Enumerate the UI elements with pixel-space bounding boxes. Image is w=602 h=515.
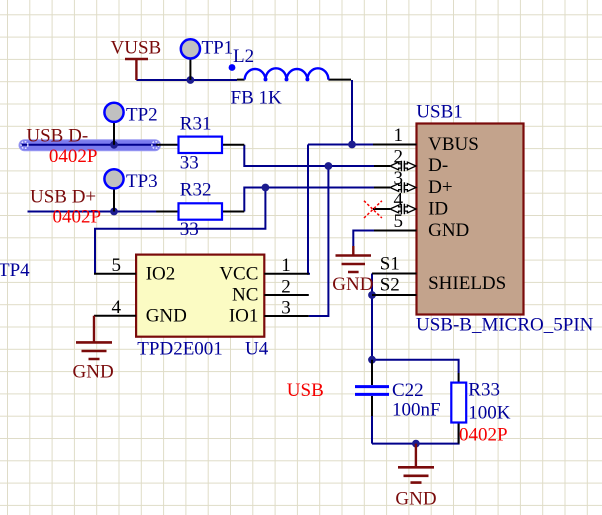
- svg-text:IO2: IO2: [146, 264, 176, 285]
- wire C22 bottom: [371, 416, 373, 444]
- svg-text:0402P: 0402P: [53, 207, 102, 228]
- svg-text:USB D+: USB D+: [30, 187, 96, 208]
- svg-text:TP2: TP2: [126, 104, 158, 125]
- svg-text:U4: U4: [245, 339, 269, 360]
- test point TP2: [104, 103, 157, 145]
- svg-text:VBUS: VBUS: [428, 134, 479, 155]
- power port VUSB: [125, 59, 148, 80]
- junction VUSB at TP1: [187, 76, 195, 84]
- svg-text:100nF: 100nF: [392, 400, 441, 421]
- svg-text:GND: GND: [395, 489, 436, 510]
- svg-text:FB 1K: FB 1K: [231, 88, 282, 109]
- svg-text:TP1: TP1: [202, 37, 234, 58]
- wire L2 out down to VBUS: [351, 80, 353, 145]
- resistor R33: [451, 373, 511, 446]
- svg-text:5: 5: [394, 211, 404, 232]
- svg-text:SHIELDS: SHIELDS: [428, 273, 506, 294]
- USB1 pin S1 SHIELDS: [372, 254, 506, 295]
- net highlight on USB D- wire: [19, 140, 161, 151]
- test point TP3: [104, 169, 157, 211]
- wire R32 to USB1 pin 3: [244, 188, 374, 212]
- svg-text:TPD2E001: TPD2E001: [137, 339, 223, 360]
- junction VBUS node: [348, 141, 356, 149]
- wire bottom loop to ground node: [372, 422, 459, 444]
- svg-text:GND: GND: [146, 306, 187, 327]
- wire VUSB rail: [136, 79, 237, 81]
- USB1 pin 5 GND: [374, 211, 469, 241]
- USB1 pin 2 D-: [374, 147, 448, 177]
- svg-text:4: 4: [394, 190, 404, 211]
- svg-text:1: 1: [394, 125, 404, 146]
- USB1 pin S2: [372, 275, 417, 296]
- wire D+ branch to U4 IO2: [95, 188, 265, 275]
- svg-text:IO1: IO1: [229, 306, 259, 327]
- U4 pin 3 IO1: [229, 297, 309, 326]
- svg-text:2: 2: [394, 147, 404, 168]
- svg-text:USB D-: USB D-: [26, 125, 88, 146]
- svg-text:R31: R31: [180, 114, 212, 135]
- svg-text:VUSB: VUSB: [111, 37, 162, 58]
- wire R31 to USB1 pin 2: [244, 145, 374, 166]
- svg-text:33: 33: [180, 153, 199, 174]
- svg-text:D-: D-: [428, 155, 448, 176]
- USB1 pin 1 VBUS: [373, 125, 479, 155]
- USB1 pin 4 ID: [373, 190, 448, 220]
- svg-text:1: 1: [281, 255, 291, 276]
- svg-text:NC: NC: [232, 285, 258, 306]
- junction D- node: [325, 162, 333, 170]
- wire VBUS row: [308, 144, 374, 146]
- wire D- branch to U4 IO1: [309, 166, 329, 316]
- wire USB D- net: [21, 144, 157, 146]
- wire shield node top loop: [372, 360, 459, 373]
- svg-text:C22: C22: [392, 380, 424, 401]
- test point TP1: [181, 37, 233, 80]
- svg-text:100K: 100K: [468, 403, 511, 424]
- connector USB1 body: [417, 124, 524, 315]
- svg-text:ID: ID: [428, 199, 448, 220]
- svg-text:0402P: 0402P: [459, 425, 508, 446]
- svg-text:2: 2: [281, 276, 291, 297]
- junction D+ at TP3: [110, 208, 118, 216]
- svg-text:GND: GND: [428, 220, 469, 241]
- wire USB D+ net: [28, 211, 158, 213]
- svg-text:USB: USB: [287, 380, 324, 401]
- svg-text:3: 3: [394, 168, 404, 189]
- ground GND at bottom: [395, 444, 436, 510]
- resistor R31: [156, 114, 244, 174]
- wire USB1 GND pin to ground: [353, 231, 374, 247]
- ground GND at USB1 pin 5: [332, 246, 373, 295]
- svg-text:33: 33: [180, 219, 199, 240]
- ground GND at U4: [73, 316, 114, 383]
- wire S1 S2 tie down to shield net: [371, 274, 373, 360]
- svg-text:L2: L2: [233, 46, 254, 67]
- svg-text:USB1: USB1: [416, 102, 462, 123]
- svg-text:TP4: TP4: [0, 260, 30, 281]
- wire VBUS down to U4 VCC: [308, 145, 310, 274]
- svg-text:D+: D+: [428, 177, 452, 198]
- svg-text:GND: GND: [332, 274, 373, 295]
- highlight selection handles: [21, 142, 159, 149]
- svg-text:GND: GND: [73, 362, 114, 383]
- junction D+ node: [262, 184, 270, 192]
- svg-text:0402P: 0402P: [49, 146, 98, 167]
- svg-text:R33: R33: [468, 380, 500, 401]
- svg-text:S1: S1: [380, 254, 400, 275]
- svg-text:5: 5: [112, 255, 122, 276]
- junction D- at TP2: [110, 141, 118, 149]
- svg-text:3: 3: [281, 297, 291, 318]
- resistor R32: [156, 179, 244, 240]
- junction S2 node: [368, 291, 376, 299]
- U4 pin 4 GND: [94, 297, 187, 327]
- junction bottom ground node: [412, 440, 420, 448]
- capacitor C22: [355, 360, 441, 421]
- inductor L2: [229, 46, 351, 109]
- svg-text:S2: S2: [380, 275, 400, 296]
- U4 pin 1 VCC: [219, 255, 308, 285]
- junction shield top node: [368, 356, 376, 364]
- no-ERC marker on ID pin: [364, 201, 382, 218]
- IC U4 body: [136, 255, 264, 337]
- USB1 pin 3 D+: [374, 168, 453, 198]
- svg-text:4: 4: [112, 297, 122, 318]
- svg-text:R32: R32: [180, 179, 212, 200]
- svg-text:TP3: TP3: [126, 171, 158, 192]
- svg-text:VCC: VCC: [219, 264, 258, 285]
- U4 pin 5 IO2: [94, 255, 175, 285]
- svg-text:USB-B_MICRO_5PIN: USB-B_MICRO_5PIN: [416, 315, 594, 336]
- U4 pin 2 NC: [232, 276, 309, 305]
